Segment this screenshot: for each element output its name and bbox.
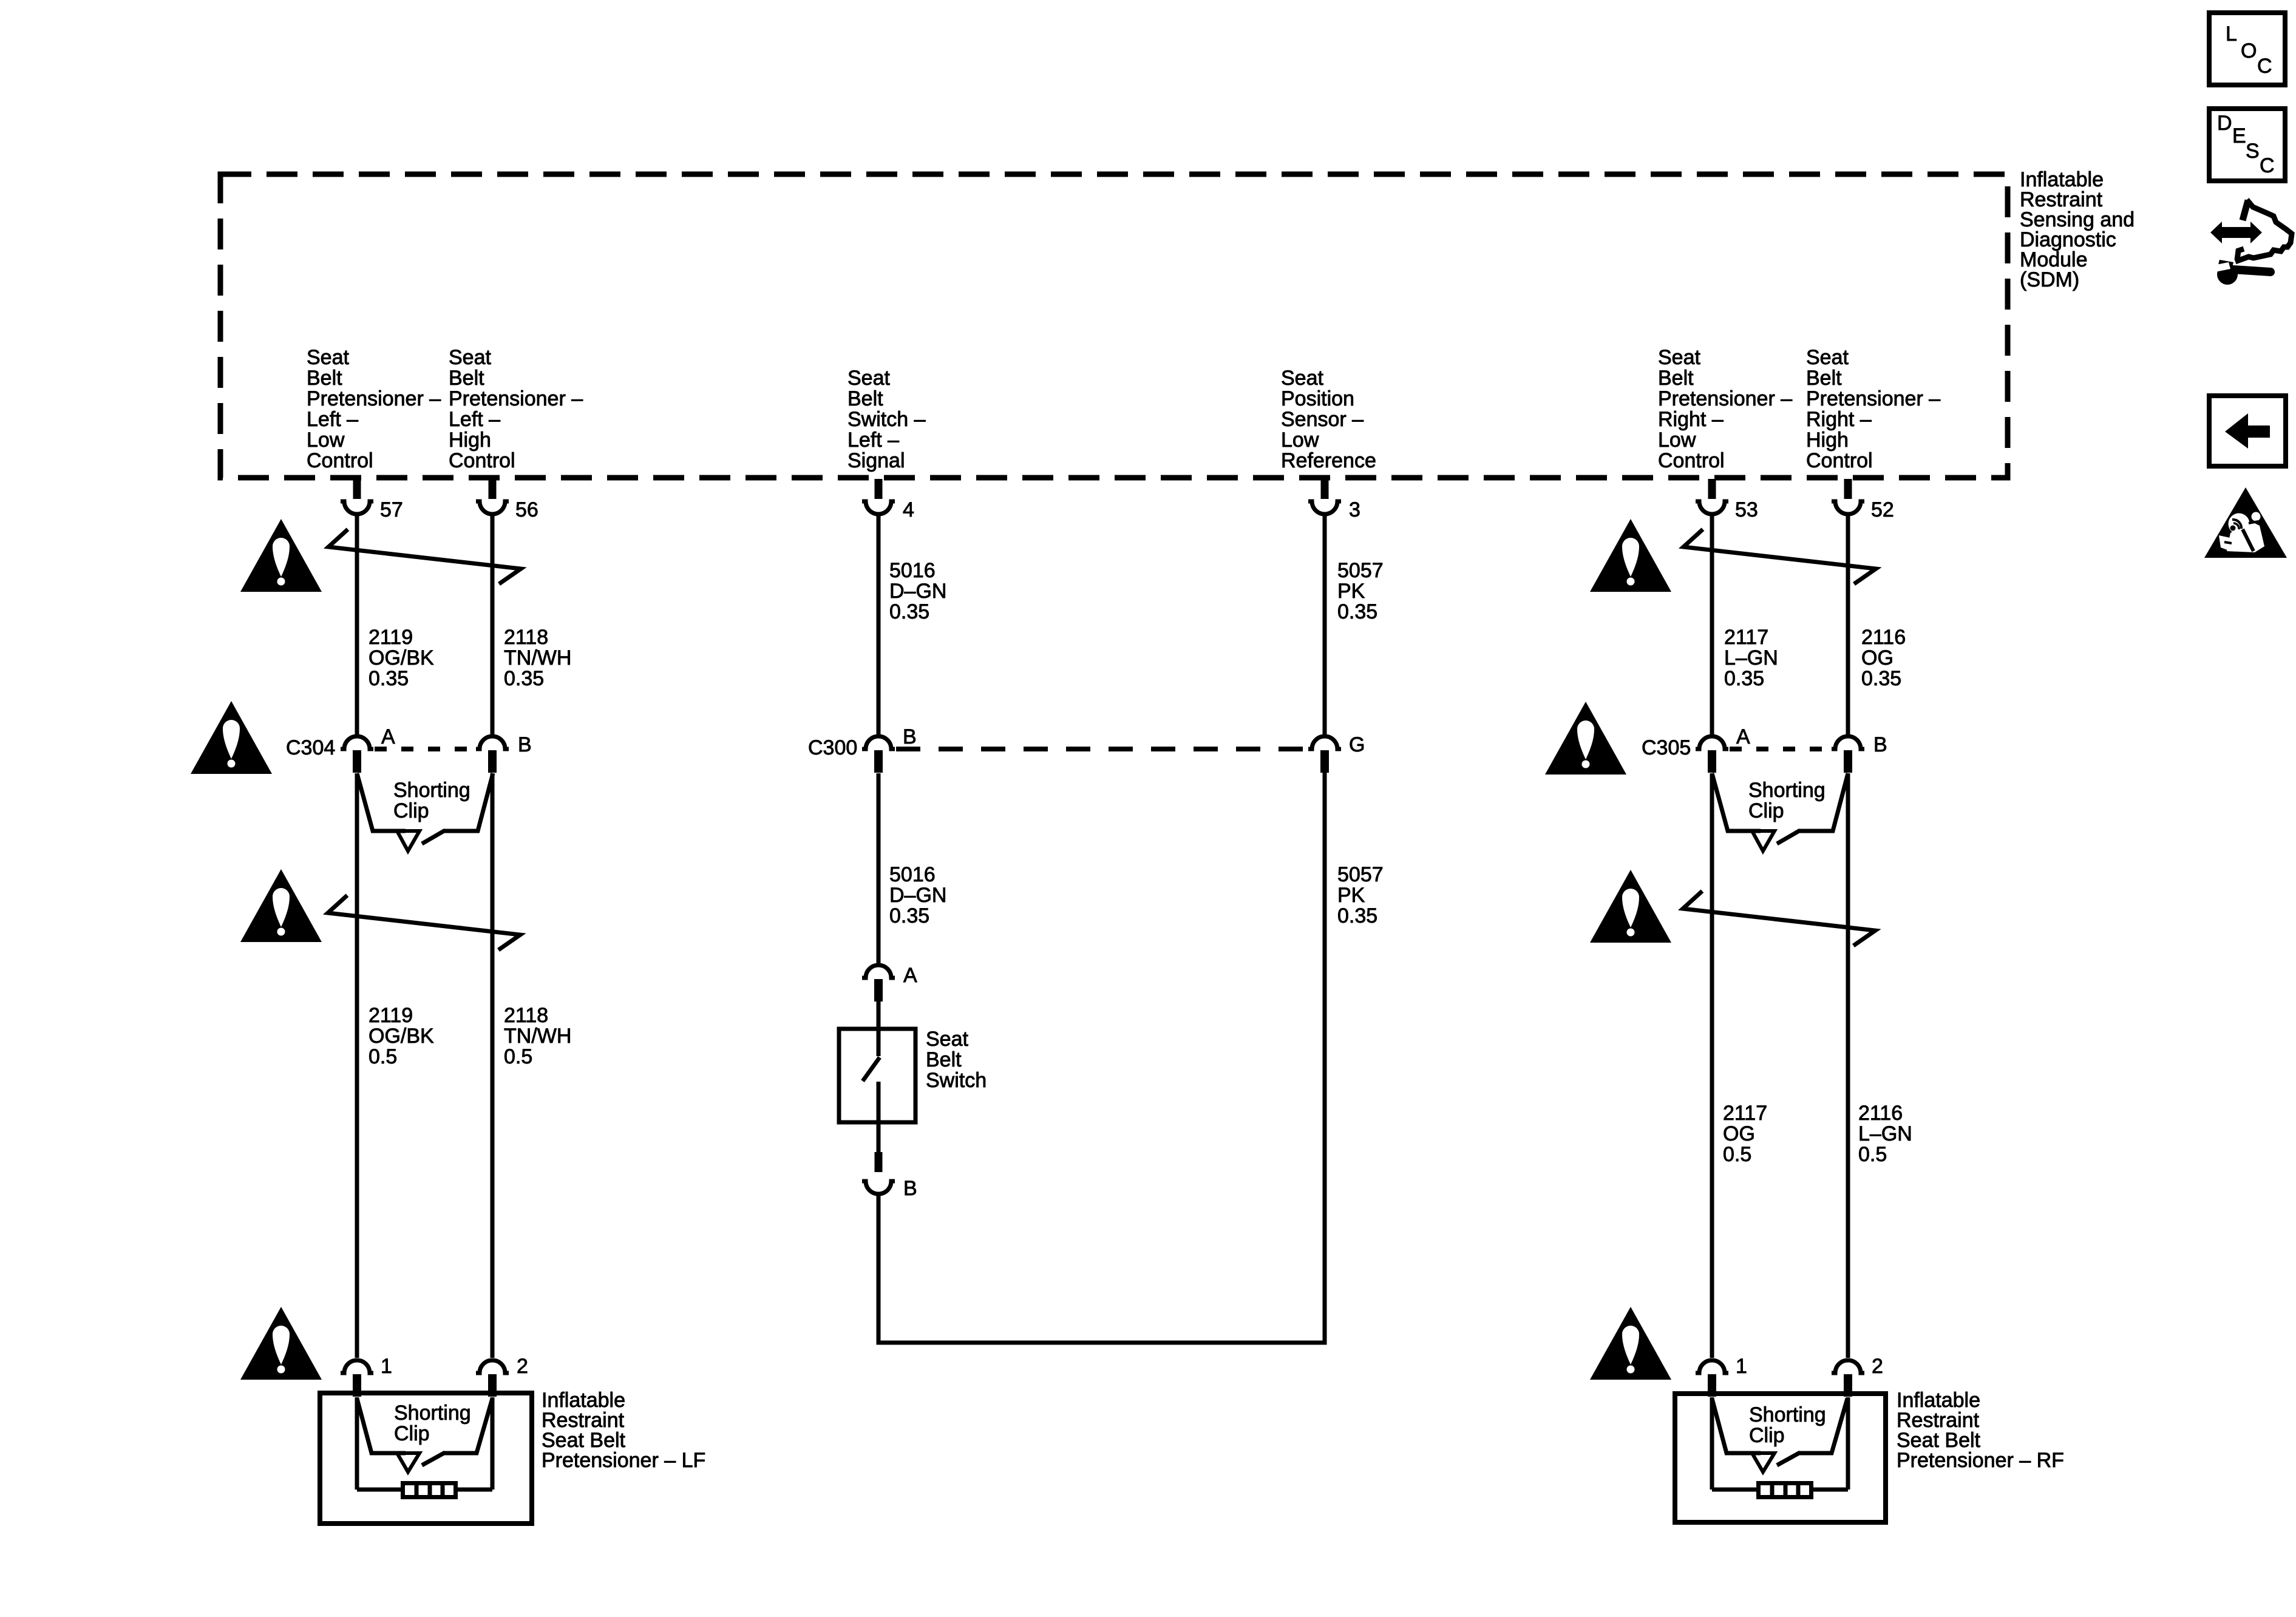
twisted pair symbol upper left bbox=[328, 529, 521, 584]
wire label 5016 D-GN 0.35 lower bbox=[889, 863, 946, 927]
twisted pair symbol upper right bbox=[1683, 529, 1876, 584]
svg-text:C305: C305 bbox=[1642, 736, 1691, 759]
svg-text:A: A bbox=[381, 725, 395, 748]
svg-text:High: High bbox=[449, 429, 491, 452]
wire 2116 lower (C305 B to pretensioner RF pin 2) bbox=[1846, 773, 1850, 1358]
svg-text:Clip: Clip bbox=[393, 799, 429, 822]
pin 57 label: Seat Belt Pretensioner - Left - Low Control bbox=[307, 346, 441, 472]
C304 pin B bbox=[476, 733, 532, 773]
LOC icon box bbox=[2209, 13, 2285, 85]
svg-text:0.5: 0.5 bbox=[1858, 1143, 1887, 1166]
svg-text:57: 57 bbox=[380, 498, 403, 521]
svg-text:Sensor –: Sensor – bbox=[1281, 408, 1364, 431]
go-to-service icon wrench bbox=[2213, 260, 2271, 285]
SDM pin 4 bbox=[862, 479, 914, 521]
svg-text:5016: 5016 bbox=[889, 559, 936, 582]
wire 5057 upper (pin 3 to C300 G) bbox=[1323, 514, 1327, 736]
svg-text:0.5: 0.5 bbox=[369, 1045, 397, 1068]
pretensioner LF label bbox=[542, 1389, 705, 1472]
svg-text:Control: Control bbox=[1806, 449, 1873, 472]
svg-text:4: 4 bbox=[903, 498, 914, 521]
svg-text:Right –: Right – bbox=[1658, 408, 1724, 431]
pretensioner LF squib bbox=[403, 1483, 456, 1497]
twisted pair symbol lower left bbox=[328, 895, 520, 950]
svg-text:2117: 2117 bbox=[1723, 1102, 1767, 1125]
svg-text:0.35: 0.35 bbox=[889, 904, 929, 927]
svg-text:0.35: 0.35 bbox=[504, 667, 544, 690]
svg-text:Clip: Clip bbox=[394, 1422, 430, 1445]
pin 4 label: Seat Belt Switch - Left - Signal bbox=[847, 367, 926, 472]
svg-text:C: C bbox=[2257, 55, 2272, 78]
wire label 2116 OG 0.35 bbox=[1861, 626, 1906, 690]
warning triangle at C304 bbox=[191, 701, 272, 774]
svg-text:Clip: Clip bbox=[1749, 1424, 1785, 1447]
C300 B-G dashed line bbox=[896, 747, 1307, 751]
C304 pin A bbox=[341, 725, 395, 773]
go-to-service icon double arrow bbox=[2210, 222, 2262, 243]
wire 2117 upper (pin 53 to C305 A) bbox=[1710, 514, 1714, 736]
pin 52 label: Seat Belt Pretensioner - Right - High Control bbox=[1806, 346, 1940, 472]
wire 2119 lower (C304 A to pretensioner LF pin 1) bbox=[355, 773, 359, 1358]
svg-text:Belt: Belt bbox=[926, 1048, 962, 1071]
C305 pin B bbox=[1832, 733, 1887, 773]
DESC icon box bbox=[2209, 109, 2285, 181]
svg-text:Left –: Left – bbox=[449, 408, 500, 431]
C304 A-B dashed line bbox=[375, 747, 477, 751]
svg-text:B: B bbox=[1873, 733, 1887, 756]
wire label 2118 TN/WH 0.35 bbox=[504, 626, 571, 690]
svg-text:B: B bbox=[903, 725, 917, 748]
svg-text:OG: OG bbox=[1723, 1122, 1755, 1145]
SDM module label bbox=[2020, 168, 2135, 291]
svg-text:A: A bbox=[1736, 725, 1750, 748]
svg-text:C304: C304 bbox=[286, 736, 335, 759]
svg-text:PK: PK bbox=[1337, 884, 1365, 907]
C300 pin G bbox=[1308, 733, 1365, 773]
svg-text:High: High bbox=[1806, 429, 1849, 452]
svg-text:Position: Position bbox=[1281, 387, 1354, 410]
pretensioner LF box bbox=[320, 1393, 532, 1524]
pretensioner LF pin 1 bbox=[341, 1355, 392, 1397]
warning triangle above pretensioner RF bbox=[1590, 1307, 1671, 1380]
warning triangle upper left bbox=[240, 519, 322, 592]
wire 2116 upper (pin 52 to C305 B) bbox=[1846, 514, 1850, 736]
go-to-service icon part outline bbox=[2235, 200, 2292, 262]
svg-text:E: E bbox=[2232, 124, 2246, 147]
SDM pin 52 bbox=[1832, 479, 1894, 521]
svg-text:2116: 2116 bbox=[1861, 626, 1906, 649]
svg-text:Switch: Switch bbox=[926, 1069, 987, 1092]
pretensioner RF internal wires bbox=[1712, 1397, 1848, 1490]
svg-text:Shorting: Shorting bbox=[1749, 1403, 1826, 1426]
pretensioner LF shorting clip bbox=[357, 1398, 492, 1472]
pretensioner LF pin 2 bbox=[476, 1355, 528, 1397]
pretensioner LF internal wires bbox=[357, 1397, 492, 1490]
pretensioner LF shorting clip label bbox=[394, 1402, 471, 1445]
C305 shorting clip label bbox=[1748, 779, 1826, 822]
C304 shorting clip bbox=[357, 773, 493, 851]
seat belt switch box bbox=[839, 1029, 915, 1122]
svg-text:(SDM): (SDM) bbox=[2020, 268, 2079, 291]
svg-text:Belt: Belt bbox=[449, 367, 484, 390]
C305 A-B dashed line bbox=[1730, 747, 1830, 751]
svg-text:56: 56 bbox=[515, 498, 538, 521]
svg-text:Low: Low bbox=[1281, 429, 1319, 452]
svg-text:D: D bbox=[2217, 112, 2232, 135]
svg-text:2118: 2118 bbox=[504, 626, 548, 649]
svg-text:0.35: 0.35 bbox=[1861, 667, 1901, 690]
back arrow icon box bbox=[2209, 396, 2286, 466]
svg-text:0.35: 0.35 bbox=[1337, 904, 1377, 927]
svg-text:2: 2 bbox=[1872, 1355, 1883, 1378]
wire 2119 upper (pin 57 to C304 A) bbox=[355, 514, 359, 736]
twisted pair symbol lower right bbox=[1683, 891, 1875, 946]
svg-text:Belt: Belt bbox=[1658, 367, 1694, 390]
svg-text:Belt: Belt bbox=[1806, 367, 1842, 390]
svg-text:Belt: Belt bbox=[307, 367, 342, 390]
wire label 5057 PK 0.35 upper bbox=[1337, 559, 1384, 623]
svg-text:Seat: Seat bbox=[847, 367, 890, 390]
pretensioner RF shorting clip bbox=[1712, 1398, 1847, 1472]
svg-text:1: 1 bbox=[381, 1355, 392, 1378]
warning triangle lower left bbox=[240, 869, 322, 942]
C304 shorting clip label bbox=[393, 779, 470, 822]
svg-text:Pretensioner –: Pretensioner – bbox=[1806, 387, 1940, 410]
svg-text:Signal: Signal bbox=[847, 449, 905, 472]
svg-text:0.5: 0.5 bbox=[1723, 1143, 1751, 1166]
svg-text:Seat: Seat bbox=[449, 346, 491, 369]
svg-text:52: 52 bbox=[1871, 498, 1894, 521]
svg-text:B: B bbox=[903, 1177, 917, 1200]
wire 5057 lower (C300 G to switch return) bbox=[878, 772, 1325, 1343]
svg-text:Shorting: Shorting bbox=[393, 779, 470, 802]
warning triangle above pretensioner LF bbox=[240, 1307, 322, 1380]
svg-text:L–GN: L–GN bbox=[1858, 1122, 1912, 1145]
wire 5016 upper (pin 4 to C300 B) bbox=[877, 514, 881, 736]
svg-text:2119: 2119 bbox=[369, 626, 413, 649]
svg-text:2119: 2119 bbox=[369, 1004, 413, 1027]
SDM pin 56 bbox=[476, 479, 538, 521]
svg-text:Low: Low bbox=[1658, 429, 1696, 452]
svg-text:0.35: 0.35 bbox=[1337, 600, 1377, 623]
svg-text:D–GN: D–GN bbox=[889, 884, 946, 907]
pretensioner RF shorting clip label bbox=[1749, 1403, 1826, 1447]
C300 pin B bbox=[862, 725, 917, 773]
svg-text:2116: 2116 bbox=[1858, 1102, 1903, 1125]
svg-text:Clip: Clip bbox=[1748, 799, 1784, 822]
wire label 2116 L-GN 0.5 bbox=[1858, 1102, 1912, 1166]
svg-text:Seat: Seat bbox=[1281, 367, 1323, 390]
warning triangle lower right bbox=[1590, 870, 1671, 943]
svg-text:OG/BK: OG/BK bbox=[369, 1025, 434, 1048]
svg-text:3: 3 bbox=[1349, 498, 1360, 521]
svg-text:PK: PK bbox=[1337, 580, 1365, 603]
svg-text:C: C bbox=[2260, 154, 2275, 177]
svg-text:Left –: Left – bbox=[847, 429, 899, 452]
svg-text:2118: 2118 bbox=[504, 1004, 548, 1027]
warning triangle at C305 bbox=[1545, 702, 1626, 775]
svg-text:5016: 5016 bbox=[889, 863, 936, 886]
wire 2117 lower (C305 A to pretensioner RF pin 1) bbox=[1710, 773, 1714, 1358]
svg-text:C300: C300 bbox=[808, 736, 857, 759]
svg-text:Pretensioner –: Pretensioner – bbox=[307, 387, 441, 410]
seat belt switch pin B bbox=[862, 1152, 917, 1200]
svg-text:Shorting: Shorting bbox=[394, 1402, 471, 1425]
svg-text:OG/BK: OG/BK bbox=[369, 646, 434, 670]
svg-text:S: S bbox=[2246, 140, 2260, 163]
svg-text:Seat: Seat bbox=[307, 346, 349, 369]
svg-text:Reference: Reference bbox=[1281, 449, 1376, 472]
wire switch A to box bbox=[877, 1001, 881, 1032]
pretensioner RF squib bbox=[1759, 1483, 1812, 1497]
svg-text:D–GN: D–GN bbox=[889, 580, 946, 603]
seat belt switch pin A bbox=[862, 964, 917, 1002]
C305 shorting clip bbox=[1712, 773, 1848, 851]
svg-text:Low: Low bbox=[307, 429, 345, 452]
pretensioner RF box bbox=[1675, 1394, 1886, 1522]
svg-text:A: A bbox=[903, 964, 917, 987]
C305 pin A bbox=[1696, 725, 1750, 773]
svg-text:Pretensioner –: Pretensioner – bbox=[1658, 387, 1792, 410]
svg-text:TN/WH: TN/WH bbox=[504, 646, 571, 670]
svg-text:Pretensioner – RF: Pretensioner – RF bbox=[1897, 1449, 2064, 1472]
wire 5016 lower (C300 B to seat belt switch A) bbox=[877, 773, 881, 965]
SDM pin 53 bbox=[1696, 479, 1758, 521]
svg-text:Belt: Belt bbox=[847, 387, 883, 410]
svg-text:Control: Control bbox=[1658, 449, 1725, 472]
SDM module dashed box bbox=[220, 174, 2008, 478]
svg-text:Right –: Right – bbox=[1806, 408, 1872, 431]
svg-text:Shorting: Shorting bbox=[1748, 779, 1826, 802]
SDM pin 57 bbox=[341, 479, 403, 521]
svg-text:53: 53 bbox=[1735, 498, 1758, 521]
svg-text:0.35: 0.35 bbox=[369, 667, 409, 690]
pin 3 label: Seat Position Sensor - Low Reference bbox=[1281, 367, 1376, 472]
wire label 2117 OG 0.5 bbox=[1723, 1102, 1767, 1166]
wire label 5057 PK 0.35 lower bbox=[1337, 863, 1384, 927]
pretensioner RF pin 2 bbox=[1832, 1355, 1883, 1397]
pretensioner RF pin 1 bbox=[1696, 1355, 1747, 1397]
svg-text:1: 1 bbox=[1736, 1355, 1747, 1378]
wire label 2118 TN/WH 0.5 bbox=[504, 1004, 571, 1068]
SDM pin 3 bbox=[1308, 479, 1360, 521]
svg-text:0.5: 0.5 bbox=[504, 1045, 532, 1068]
wire label 2119 OG/BK 0.35 bbox=[369, 626, 434, 690]
pretensioner RF label bbox=[1897, 1389, 2064, 1472]
svg-text:OG: OG bbox=[1861, 646, 1894, 670]
svg-text:O: O bbox=[2241, 39, 2257, 63]
svg-text:Seat: Seat bbox=[926, 1028, 968, 1051]
wire label 2117 L-GN 0.35 bbox=[1724, 626, 1778, 690]
svg-text:Seat: Seat bbox=[1806, 346, 1849, 369]
svg-text:Pretensioner –: Pretensioner – bbox=[449, 387, 583, 410]
wire label 5016 D-GN 0.35 upper bbox=[889, 559, 946, 623]
svg-text:0.35: 0.35 bbox=[889, 600, 929, 623]
svg-text:L: L bbox=[2226, 22, 2237, 46]
wire 2118 upper (pin 56 to C304 B) bbox=[491, 514, 495, 736]
svg-text:2117: 2117 bbox=[1724, 626, 1768, 649]
wire label 2119 OG/BK 0.5 bbox=[369, 1004, 434, 1068]
svg-text:5057: 5057 bbox=[1337, 559, 1384, 582]
svg-text:Control: Control bbox=[449, 449, 515, 472]
svg-text:5057: 5057 bbox=[1337, 863, 1384, 886]
svg-text:Control: Control bbox=[307, 449, 373, 472]
pin 56 label: Seat Belt Pretensioner - Left - High Control bbox=[449, 346, 583, 472]
seat belt switch blade bbox=[863, 1029, 880, 1153]
svg-text:Left –: Left – bbox=[307, 408, 358, 431]
seat belt switch label bbox=[926, 1028, 987, 1092]
svg-text:TN/WH: TN/WH bbox=[504, 1025, 571, 1048]
svg-text:Pretensioner – LF: Pretensioner – LF bbox=[542, 1449, 705, 1472]
svg-text:G: G bbox=[1349, 733, 1365, 756]
svg-text:Seat: Seat bbox=[1658, 346, 1700, 369]
svg-text:B: B bbox=[518, 733, 532, 756]
svg-text:L–GN: L–GN bbox=[1724, 646, 1778, 670]
svg-text:Switch –: Switch – bbox=[847, 408, 926, 431]
svg-text:2: 2 bbox=[517, 1355, 528, 1378]
pin 53 label: Seat Belt Pretensioner - Right - Low Control bbox=[1658, 346, 1792, 472]
airbag warning triangle icon bbox=[2204, 487, 2287, 558]
warning triangle upper right bbox=[1590, 519, 1671, 592]
wire 2118 lower (C304 B to pretensioner LF pin 2) bbox=[491, 773, 495, 1358]
svg-text:0.35: 0.35 bbox=[1724, 667, 1764, 690]
